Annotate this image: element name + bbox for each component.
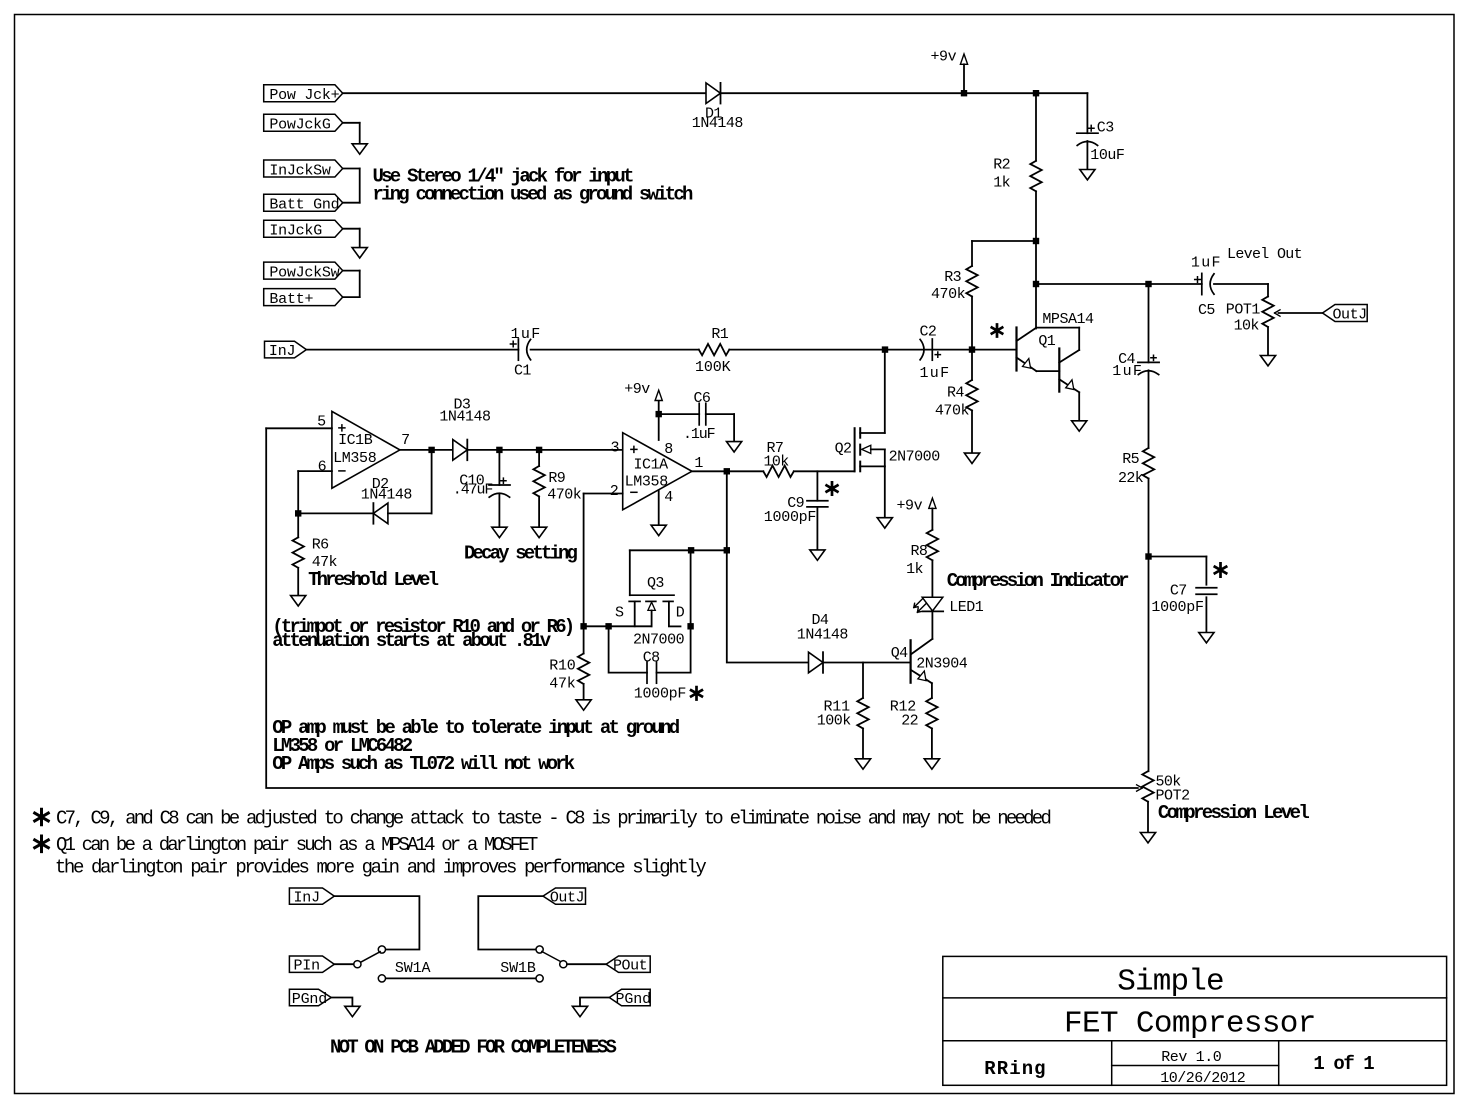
svg-text:MPSA14: MPSA14 — [1042, 311, 1094, 328]
svg-text:LED1: LED1 — [949, 599, 984, 616]
svg-text:.47uF: .47uF — [453, 482, 493, 499]
svg-text:1k: 1k — [993, 174, 1010, 191]
svg-text:Decay setting: Decay setting — [464, 542, 577, 564]
svg-text:+9v: +9v — [931, 49, 957, 66]
svg-text:10/26/2012: 10/26/2012 — [1160, 1070, 1245, 1087]
svg-text:FET Compressor: FET Compressor — [1064, 1007, 1315, 1042]
svg-text:+9v: +9v — [897, 497, 923, 514]
svg-text:PGnd: PGnd — [616, 991, 651, 1008]
svg-text:.1uF: .1uF — [683, 426, 715, 443]
svg-text:Compression Indicator: Compression Indicator — [947, 570, 1129, 592]
svg-text:1: 1 — [694, 455, 703, 472]
svg-text:C7: C7 — [1170, 583, 1187, 600]
svg-text:Q4: Q4 — [891, 645, 908, 662]
svg-text:C1: C1 — [514, 363, 531, 380]
svg-text:47k: 47k — [549, 675, 576, 692]
svg-text:Q1 can be a darlington pair su: Q1 can be a darlington pair such as a MP… — [56, 834, 538, 856]
svg-text:InJ: InJ — [294, 890, 320, 907]
svg-text:1 of 1: 1 of 1 — [1313, 1053, 1374, 1075]
svg-text:POut: POut — [613, 958, 647, 975]
svg-text:ring connection used as ground: ring connection used as ground switch — [373, 184, 693, 206]
svg-text:POT1: POT1 — [1226, 302, 1261, 319]
svg-text:attenuation starts at about .8: attenuation starts at about .81v — [272, 630, 551, 652]
svg-text:Q3: Q3 — [647, 575, 664, 592]
svg-text:LM358: LM358 — [625, 473, 669, 490]
svg-text:470k: 470k — [935, 403, 970, 420]
svg-text:R4: R4 — [947, 385, 964, 402]
svg-text:2N3904: 2N3904 — [916, 655, 968, 672]
svg-text:C8: C8 — [643, 649, 660, 666]
svg-text:1N4148: 1N4148 — [439, 408, 491, 425]
svg-text:Q2: Q2 — [835, 441, 852, 458]
svg-text:22k: 22k — [1118, 470, 1144, 487]
svg-text:6: 6 — [318, 459, 327, 476]
svg-text:D: D — [676, 604, 685, 621]
svg-text:IC1B: IC1B — [338, 432, 373, 449]
svg-text:Batt Gnd: Batt Gnd — [269, 197, 339, 214]
svg-text:100K: 100K — [695, 359, 731, 376]
svg-text:470k: 470k — [547, 487, 582, 504]
svg-text:1uF: 1uF — [1112, 363, 1141, 380]
svg-text:1000pF: 1000pF — [1151, 599, 1203, 616]
svg-text:10k: 10k — [1234, 318, 1260, 335]
svg-text:Pow Jck+: Pow Jck+ — [269, 87, 339, 104]
svg-text:1uF: 1uF — [920, 365, 949, 382]
svg-text:10uF: 10uF — [1090, 147, 1124, 164]
svg-text:C5: C5 — [1198, 302, 1215, 319]
svg-text:InJckSw: InJckSw — [269, 162, 330, 179]
svg-text:Batt+: Batt+ — [269, 291, 313, 308]
svg-text:OutJ: OutJ — [550, 890, 584, 907]
svg-text:PGnd: PGnd — [292, 991, 327, 1008]
svg-text:2N7000: 2N7000 — [633, 631, 685, 648]
svg-text:1N4148: 1N4148 — [361, 487, 413, 504]
svg-text:NOT ON PCB ADDED FOR COMPLETEN: NOT ON PCB ADDED FOR COMPLETENESS — [330, 1036, 616, 1058]
svg-text:C6: C6 — [694, 390, 711, 407]
svg-text:InJckG: InJckG — [269, 223, 322, 240]
svg-text:C2: C2 — [920, 323, 937, 340]
svg-text:InJ: InJ — [269, 343, 295, 360]
svg-text:Threshold Level: Threshold Level — [308, 569, 438, 591]
svg-text:R5: R5 — [1122, 451, 1139, 468]
svg-text:7: 7 — [401, 432, 409, 449]
svg-text:3: 3 — [610, 439, 619, 456]
svg-text:1uF: 1uF — [1191, 255, 1220, 272]
svg-text:OutJ: OutJ — [1333, 307, 1367, 324]
svg-text:2: 2 — [610, 483, 618, 500]
svg-text:Compression Level: Compression Level — [1158, 802, 1309, 824]
svg-text:SW1B: SW1B — [500, 960, 536, 977]
svg-text:4: 4 — [664, 489, 673, 506]
svg-text:1000pF: 1000pF — [764, 509, 816, 526]
svg-text:1N4148: 1N4148 — [692, 115, 744, 132]
svg-text:R2: R2 — [993, 157, 1010, 174]
svg-text:R9: R9 — [548, 470, 565, 487]
svg-text:PIn: PIn — [294, 958, 320, 975]
svg-text:1000pF: 1000pF — [634, 685, 686, 702]
svg-text:the darlington pair provides m: the darlington pair provides more gain a… — [55, 856, 706, 878]
svg-text:PowJckSw: PowJckSw — [269, 264, 339, 281]
svg-text:1N4148: 1N4148 — [797, 627, 849, 644]
svg-text:IC1A: IC1A — [634, 456, 669, 473]
svg-text:C3: C3 — [1097, 120, 1114, 137]
svg-text:1k: 1k — [906, 561, 923, 578]
svg-text:10k: 10k — [764, 454, 790, 471]
svg-text:LM358: LM358 — [333, 450, 377, 467]
svg-text:SW1A: SW1A — [395, 960, 431, 977]
svg-text:100k: 100k — [817, 713, 852, 730]
svg-text:C7, C9, and C8 can be adjusted: C7, C9, and C8 can be adjusted to change… — [56, 807, 1050, 829]
svg-text:1uF: 1uF — [511, 326, 540, 343]
svg-text:R6: R6 — [312, 537, 329, 554]
svg-text:R8: R8 — [910, 543, 927, 560]
svg-text:Q1: Q1 — [1038, 333, 1055, 350]
svg-text:+9v: +9v — [624, 381, 650, 398]
svg-text:OP Amps such as TL072 will not: OP Amps such as TL072 will not work — [272, 753, 574, 775]
svg-text:PowJckG: PowJckG — [269, 117, 330, 134]
svg-text:R10: R10 — [549, 657, 576, 674]
svg-text:R3: R3 — [944, 269, 961, 286]
svg-text:2N7000: 2N7000 — [889, 448, 941, 465]
svg-text:Level Out: Level Out — [1227, 246, 1302, 263]
svg-text:S: S — [615, 604, 624, 621]
svg-text:22: 22 — [901, 713, 918, 730]
svg-text:Rev 1.0: Rev 1.0 — [1161, 1049, 1222, 1066]
svg-text:Simple: Simple — [1117, 964, 1223, 999]
svg-text:R1: R1 — [711, 326, 728, 343]
svg-text:470k: 470k — [931, 286, 966, 303]
